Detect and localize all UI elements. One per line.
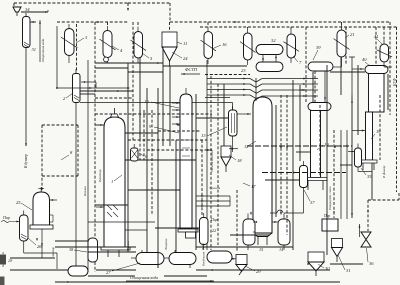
- drum 23 horizontal: [256, 62, 283, 72]
- svg-text:Реактор: Реактор: [98, 169, 102, 183]
- svg-text:22: 22: [212, 228, 216, 233]
- wire verticals group C right of fractionator: [275, 105, 277, 217]
- wire left feed into col13 top: [205, 102, 233, 104]
- wire hx41 bottom stub: [383, 62, 385, 67]
- svg-text:Оборотная вода: Оборотная вода: [41, 38, 45, 62]
- scan corner mark lower: [0, 277, 4, 285]
- heat exchanger 16: [204, 32, 213, 59]
- wire absorber left feed nozzles: [172, 102, 180, 104]
- wire dashed drop into valve 36: [367, 200, 369, 231]
- wire funnel outlet to right: [21, 11, 48, 13]
- heat exchanger 7: [287, 34, 296, 58]
- svg-text:13: 13: [201, 133, 206, 138]
- wire stubs from headers to top vessels: [107, 22, 109, 26]
- box above hopper 31: [322, 219, 338, 231]
- wire verticals group B center: [195, 94, 197, 250]
- heat exchanger 14 bottom: [278, 219, 290, 245]
- wire manifold feeds left of fractionator: [207, 78, 250, 80]
- pump circle under exchanger 4: [104, 57, 109, 62]
- wire second header y91: [80, 90, 133, 92]
- wire arrow into vessel40 cap: [352, 68, 364, 70]
- svg-text:ФСТП: ФСТП: [185, 67, 198, 72]
- svg-text:21: 21: [350, 32, 355, 37]
- wire oborotnaya voda line x40: [39, 20, 41, 62]
- wire dashed y150 segment: [147, 149, 212, 151]
- svg-text:26: 26: [37, 244, 42, 249]
- column 12 main fractionator: [253, 97, 272, 233]
- wire dashed recycle line top y3: [14, 2, 128, 4]
- heat exchanger 27a: [136, 253, 164, 265]
- wire dashed header y27 right half: [200, 26, 390, 28]
- drum 25 accumulator: [33, 192, 50, 225]
- svg-text:Пар: Пар: [2, 215, 10, 220]
- column 19 mid cap drum: [308, 103, 331, 111]
- wire dashed drop to hopper 31: [333, 130, 335, 218]
- wire col2 bottoms to manifold: [80, 102, 205, 104]
- vessel 31 small column: [23, 17, 31, 48]
- svg-text:15: 15: [259, 247, 263, 252]
- svg-text:37: 37: [310, 200, 315, 205]
- svg-text:11: 11: [183, 41, 187, 46]
- wire drum25 bottoms link: [41, 244, 43, 258]
- wire dashed corner top right: [368, 199, 399, 201]
- wire up arrow left of valve 36: [359, 224, 361, 237]
- wire vent line x352 with tee: [351, 57, 353, 95]
- wire reactor right face y230: [125, 229, 147, 231]
- svg-text:Эмульсия: Эмульсия: [209, 187, 221, 190]
- vessel 6 small filter pot: [131, 148, 139, 161]
- wire arrows column to exch14: [272, 221, 278, 223]
- heat exchanger 6: [244, 33, 253, 60]
- heat exchanger 26: [20, 215, 29, 241]
- svg-text:27: 27: [106, 270, 111, 275]
- svg-text:31: 31: [346, 268, 351, 273]
- wire arrow into col2 right: [81, 81, 96, 83]
- wire long vertical x95 dashed: [94, 22, 96, 272]
- svg-text:36: 36: [369, 261, 374, 266]
- wire dashed y114 into manifold: [95, 113, 212, 115]
- vessel 38 small drum: [88, 238, 98, 262]
- funnel 34: [13, 7, 21, 12]
- svg-text:35: 35: [367, 174, 372, 179]
- dashed loop around 8: [42, 124, 78, 126]
- drum bottom third: [207, 251, 232, 263]
- wire dashed drop x128 with arrow: [127, 3, 129, 10]
- reactor 1 vessel: [104, 117, 125, 247]
- wire column31 inlet arrow: [30, 21, 36, 23]
- wire electro bundle lines: [196, 195, 230, 197]
- wire col13 top link: [237, 113, 251, 115]
- scan corner mark upper: [0, 255, 6, 264]
- heat exchanger 4: [103, 31, 112, 58]
- wire manifold dashed y76: [205, 74, 250, 76]
- column 9/10 absorber tall: [180, 94, 192, 229]
- column 13 small: [229, 110, 238, 136]
- svg-text:1: 1: [111, 179, 113, 184]
- wire arrow into reactor side: [95, 124, 104, 126]
- column 2 stripper: [73, 74, 81, 103]
- svg-text:25: 25: [16, 200, 21, 205]
- hopper 31: [332, 239, 343, 248]
- wire arrow into hopper18: [229, 148, 238, 150]
- wire drum32-drum23 connectors: [262, 55, 264, 63]
- wire dashed x140 x144 drops: [139, 110, 141, 160]
- hopper 24 catalyst bin: [162, 32, 177, 47]
- hopper 29: [236, 255, 247, 265]
- svg-text:32: 32: [271, 38, 276, 43]
- svg-text:Затвор: Затвор: [51, 247, 55, 257]
- svg-text:40: 40: [362, 57, 367, 62]
- wire header y63: [95, 62, 163, 64]
- wire dashed right edge pair: [389, 27, 391, 115]
- wire dashed y131 segment right: [158, 130, 200, 132]
- vessel 40 accumulator with cap: [365, 66, 388, 74]
- reactor top nozzle: [114, 108, 116, 117]
- wire arrows column to exch15: [253, 221, 255, 223]
- svg-text:14: 14: [279, 247, 283, 252]
- svg-text:23: 23: [241, 68, 246, 73]
- wire column2 bottoms long drop: [75, 103, 77, 267]
- wire manifold feeds right of fractionator: [262, 78, 318, 80]
- heat exchanger 5: [134, 32, 143, 59]
- hopper 18 fresh catalyst: [221, 146, 231, 157]
- wire arrows into drum25 right: [50, 199, 58, 201]
- svg-text:18: 18: [237, 158, 242, 163]
- svg-text:39: 39: [316, 45, 321, 50]
- vessel 22 steam heater: [200, 218, 209, 245]
- wire header y88 from col2: [57, 87, 128, 89]
- wire manifold herringbone center vertical: [255, 78, 257, 101]
- heat exchanger 3: [65, 29, 75, 56]
- column 19 mid body: [311, 111, 321, 178]
- wire extra horizontals upper-middle band: [95, 67, 128, 69]
- wire dash-dot transfer line y146: [247, 145, 352, 147]
- wire to bunker vertical x25: [25, 48, 27, 147]
- svg-text:Конденсат: Конденсат: [202, 251, 206, 267]
- column 19 thin right: [366, 112, 373, 160]
- wire arrow on transfer line y172: [293, 172, 296, 174]
- heat exchanger 41: [380, 44, 389, 62]
- svg-text:19: 19: [376, 129, 381, 134]
- svg-text:Бензин: Бензин: [83, 186, 87, 197]
- drum 32 horizontal: [256, 45, 283, 55]
- wire dashed drop x14: [13, 3, 15, 7]
- svg-text:31: 31: [32, 47, 37, 52]
- vessel 35 small: [355, 148, 362, 167]
- wire verticals x341 x347: [340, 130, 342, 219]
- heat exchanger 27b: [169, 253, 196, 265]
- wire long vertical x88: [87, 60, 89, 272]
- wire verticals group A left-center: [127, 63, 129, 252]
- wire arrow into reactor left y207: [96, 206, 104, 208]
- drum 39 horizontal: [308, 62, 333, 71]
- svg-text:В бункер: В бункер: [24, 154, 28, 168]
- svg-text:Свежий катализ.: Свежий катализ.: [209, 149, 214, 172]
- wire line y222 under reactor: [88, 221, 155, 223]
- svg-text:В факелу: В факелу: [382, 165, 386, 178]
- svg-text:12: 12: [244, 144, 249, 149]
- wire absorber dome vent: [185, 88, 187, 94]
- wire manifold verticals: [206, 60, 208, 250]
- drum 28 horizontal small: [68, 266, 88, 276]
- svg-text:Вода: Вода: [201, 243, 205, 250]
- wire dashed header y22: [57, 21, 128, 23]
- wire horizontals group: [95, 62, 163, 64]
- valve 36 hourglass: [361, 232, 371, 247]
- svg-text:Лигроин: Лигроин: [164, 238, 168, 251]
- svg-text:16: 16: [222, 42, 227, 47]
- svg-text:Рециркулят. смесь: Рециркулят. смесь: [328, 186, 332, 211]
- svg-text:17: 17: [251, 184, 256, 189]
- wire dashed right edge drop x390: [389, 22, 391, 27]
- hopper 30: [308, 252, 324, 262]
- wire assorted arrows: [127, 87, 130, 89]
- wire dashed drop x170: [169, 3, 171, 22]
- wire dashed ladder y98: [95, 97, 133, 99]
- heat exchanger 21: [337, 30, 346, 57]
- heat exchanger 15 bottom: [243, 219, 255, 245]
- wire dashed drop into col2: [76, 24, 78, 71]
- svg-text:Пар: Пар: [210, 218, 218, 222]
- wire drum39 to hx21 link: [333, 66, 342, 68]
- wire into col19 thin: [352, 130, 366, 132]
- column 37 small: [300, 166, 308, 188]
- svg-text:34: 34: [25, 7, 30, 12]
- svg-text:24: 24: [183, 56, 188, 61]
